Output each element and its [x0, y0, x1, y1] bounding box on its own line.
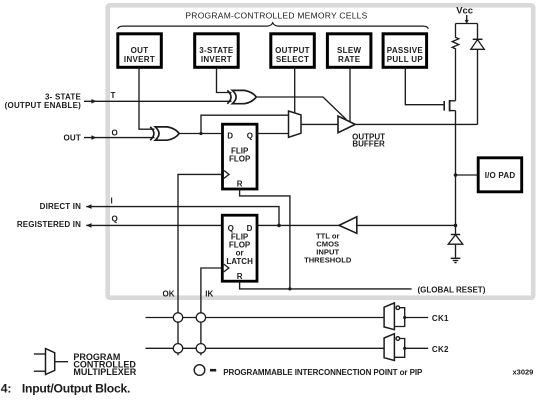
wire FF1 Q to mux input 2 — [257, 133, 289, 135]
wire threshold output to FF2 D — [257, 224, 339, 226]
PIP at OK/CK2 — [173, 344, 182, 353]
svg-text:Q: Q — [112, 215, 118, 224]
wire buffer output to pad net — [355, 123, 477, 125]
memory cell 3-STATE INVERT — [195, 34, 239, 68]
xor gate XOR2 (3-state invert) — [227, 90, 256, 103]
svg-text:SELECT: SELECT — [276, 55, 309, 64]
wire XOR2 output to buffer enable — [256, 97, 346, 120]
svg-text:(OUTPUT ENABLE): (OUTPUT ENABLE) — [5, 101, 81, 110]
svg-text:INVERT: INVERT — [201, 55, 232, 64]
svg-text:PULL UP: PULL UP — [387, 55, 424, 64]
wire from SLEW RATE cell to output buffer — [349, 68, 351, 122]
ground — [451, 258, 461, 262]
svg-text:OUTPUT: OUTPUT — [275, 46, 310, 55]
svg-text:O: O — [112, 128, 118, 137]
svg-text:PROGRAMMABLE INTERCONNECTION P: PROGRAMMABLE INTERCONNECTION POINT or PI… — [223, 368, 423, 377]
wire direct-in line — [86, 207, 279, 226]
svg-text:Q: Q — [228, 224, 234, 233]
memory cell OUTPUT SELECT — [271, 34, 315, 68]
diode D2 (clamp to ground) — [448, 225, 463, 258]
PIP at OK/CK1 — [173, 313, 182, 322]
wire input line from pad to threshold buffer — [357, 224, 456, 226]
wire from PASSIVE PULL UP cell to transistor gate — [405, 68, 444, 105]
arrow out direct-in — [86, 204, 91, 209]
brace over memory cells — [118, 23, 429, 29]
legend PIP symbol — [194, 365, 205, 376]
svg-text:SLEW: SLEW — [337, 46, 361, 55]
svg-text:4:: 4: — [1, 381, 11, 395]
arrow out registered-in — [86, 223, 91, 228]
wire CK1 line — [146, 317, 385, 319]
wire FF2 R to global reset — [240, 281, 412, 289]
svg-text:IK: IK — [205, 290, 213, 299]
memory cell SLEW RATE — [327, 34, 371, 68]
wire FF1 R to global reset — [240, 189, 290, 289]
svg-text:OUT: OUT — [64, 133, 82, 142]
wire Vcc rail — [456, 23, 478, 25]
svg-text:3-STATE: 3-STATE — [199, 46, 234, 55]
wire branch to mux input 1 — [201, 115, 289, 133]
svg-text:I: I — [111, 196, 113, 205]
junction at XOR1 output branch — [199, 132, 202, 135]
PIP at IK/CK1 — [196, 313, 205, 322]
wire Vcc stub — [466, 15, 468, 21]
wire from OUT INVERT cell to XOR1 — [139, 68, 155, 130]
svg-text:Vcc: Vcc — [456, 6, 473, 17]
buffer U2 TTL/CMOS input threshold — [339, 217, 357, 234]
svg-text:Input/Output Block.: Input/Output Block. — [22, 381, 130, 395]
wire pad lead — [456, 174, 479, 176]
svg-text:OK: OK — [163, 290, 175, 299]
PIP at IK/CK2 — [196, 344, 205, 353]
wire mux output to buffer — [301, 123, 338, 125]
arrow into T — [91, 99, 96, 104]
junction global reset — [288, 287, 291, 290]
svg-text:Q: Q — [247, 131, 253, 140]
svg-text:DIRECT IN: DIRECT IN — [40, 202, 81, 211]
junction direct-in branch — [277, 224, 281, 228]
svg-text:(GLOBAL RESET): (GLOBAL RESET) — [418, 285, 486, 294]
I/O PAD box — [478, 158, 522, 192]
arrow into O — [91, 135, 96, 140]
svg-text:R: R — [237, 179, 243, 188]
flip-flop FF1 — [223, 124, 258, 189]
flip-flop FF2 (flip flop or latch) — [222, 215, 257, 281]
resistor R1 — [452, 24, 459, 101]
wire from OUTPUT SELECT cell to mux — [294, 68, 296, 114]
svg-text:LATCH: LATCH — [226, 257, 253, 266]
wire CK2 line — [146, 347, 385, 349]
junction input line — [454, 224, 458, 228]
junction pad lead — [454, 173, 458, 177]
svg-text:D: D — [227, 131, 233, 140]
svg-text:OUT: OUT — [131, 46, 149, 55]
legend multiplexer symbol — [34, 349, 68, 375]
op-amp output buffer triangle — [338, 116, 355, 133]
svg-text:CK1: CK1 — [432, 314, 449, 323]
svg-text:RATE: RATE — [338, 55, 361, 64]
svg-text:INVERT: INVERT — [124, 55, 155, 64]
transistor Q1 (passive pull-up) — [444, 100, 455, 111]
wire O input line — [84, 137, 155, 139]
svg-text:BUFFER: BUFFER — [352, 140, 385, 149]
svg-text:R: R — [237, 272, 243, 281]
xor gate XOR1 (out invert) — [150, 127, 179, 140]
wire from 3-STATE INVERT cell to XOR2 — [217, 68, 232, 93]
svg-text:FLOP: FLOP — [229, 155, 251, 164]
wire pad net vertical — [455, 111, 457, 226]
memory cell OUT INVERT — [118, 34, 162, 68]
wire FF2 clock to IK line — [201, 268, 222, 355]
multiplexer CK2 — [384, 334, 428, 361]
memory cell PASSIVE PULL UP — [383, 34, 427, 68]
svg-text:x3029: x3029 — [513, 368, 534, 377]
svg-text:PASSIVE: PASSIVE — [387, 46, 424, 55]
mux (output select) — [289, 111, 302, 137]
svg-text:I/O PAD: I/O PAD — [485, 171, 516, 180]
multiplexer CK1 — [384, 303, 428, 330]
svg-text:MULTIPLEXER: MULTIPLEXER — [73, 367, 136, 377]
wire T input line — [84, 100, 232, 102]
svg-text:D: D — [247, 224, 253, 233]
arrow Vcc down — [465, 20, 469, 24]
diode D1 (to Vcc) — [471, 24, 485, 125]
wire registered-in line — [86, 224, 222, 226]
wire FF1 clock to OK line — [178, 174, 223, 355]
svg-text:PROGRAM-CONTROLLED MEMORY CELL: PROGRAM-CONTROLLED MEMORY CELLS — [185, 10, 367, 20]
svg-text:T: T — [111, 91, 116, 100]
svg-text:THRESHOLD: THRESHOLD — [304, 256, 352, 265]
svg-text:REGISTERED IN: REGISTERED IN — [17, 220, 81, 229]
svg-text:CK2: CK2 — [432, 345, 449, 354]
wire XOR1 output to FF1 D — [179, 133, 222, 135]
